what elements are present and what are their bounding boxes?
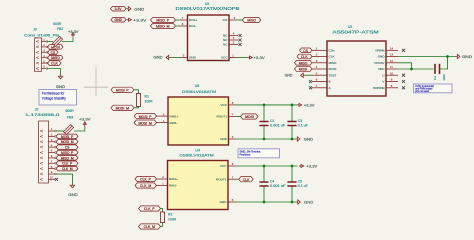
J3 net label MISO [48, 55, 64, 60]
svg-text:MOSI_M: MOSI_M [116, 106, 130, 110]
net label CLK_P at R2 [139, 206, 161, 211]
svg-text:ROUT1: ROUT1 [217, 115, 228, 119]
svg-text:1-1734595-0: 1-1734595-0 [25, 113, 59, 117]
U4 pin 2 RIN1+ [157, 178, 168, 180]
svg-text:0.1 uF: 0.1 uF [298, 184, 308, 188]
svg-text:TEST: TEST [329, 73, 337, 77]
capacitor C4 [263, 166, 265, 182]
net label CLK_M at R2 [139, 224, 161, 229]
ground left of U2 [166, 55, 170, 59]
svg-text:100R: 100R [145, 99, 154, 103]
svg-text:GND: GND [378, 55, 386, 59]
junction C3 top [291, 104, 294, 107]
power +3.3V at FB2 [72, 32, 75, 37]
net label MOSI_P at U5 [134, 114, 157, 119]
svg-text:W/PWM: W/PWM [373, 86, 385, 90]
svg-text:NC: NC [223, 34, 228, 38]
svg-text:C2: C2 [270, 119, 274, 123]
U3 pin 9 no-connect [402, 80, 405, 83]
J2 pin 2 [49, 135, 55, 137]
junction VDD [410, 68, 413, 71]
U3 pin 4 MOSI [312, 68, 327, 70]
svg-text:GND: GND [56, 85, 66, 89]
svg-text:10: 10 [50, 176, 54, 180]
svg-text:14: 14 [390, 47, 394, 51]
junction GND/C1 [446, 55, 449, 58]
J2 pin 5 [49, 152, 55, 154]
net label CLK_M at U4 [135, 183, 157, 188]
svg-text:CS: CS [51, 51, 56, 55]
svg-text:DO1+: DO1+ [189, 18, 197, 22]
wire U2 GND [171, 57, 181, 59]
svg-text:RIN1+: RIN1+ [170, 114, 179, 118]
J2 pin 10 [49, 178, 55, 180]
wire U2 VCC to +3.3V [237, 57, 248, 59]
U3 pin 14 no-connect [402, 49, 405, 52]
J2 pin 10 no-connect [55, 178, 58, 181]
svg-text:CLK: CLK [243, 178, 250, 182]
net label MISO_M at U2 [151, 24, 176, 29]
net label MOSI at U5 output [237, 116, 241, 118]
junction C3 bottom [291, 138, 294, 141]
svg-text:U: U [382, 73, 384, 77]
svg-text:FB2: FB2 [57, 27, 63, 31]
U3 pin 12 VDD3V [386, 62, 398, 64]
svg-text:ROUT1: ROUT1 [216, 177, 227, 181]
U2 pin 5 GND [181, 57, 188, 59]
IC U2 body [188, 15, 230, 61]
capacitor C3 [291, 105, 293, 122]
svg-text:RIN1-: RIN1- [169, 184, 177, 188]
U2 NC pin 4 [229, 35, 238, 37]
svg-text:MOSI_P: MOSI_P [116, 88, 130, 92]
U3 pin 6 B no-connect [309, 80, 312, 83]
U2 NC pin 3 [229, 44, 238, 46]
svg-text:+3.3V: +3.3V [253, 56, 265, 60]
svg-text:CLK_M: CLK_M [140, 184, 151, 188]
U5 pin 7 ROUT1 [229, 116, 237, 118]
svg-text:CLK: CLK [329, 55, 336, 59]
power symbol GND (rotated right) [127, 7, 131, 11]
svg-text:U3: U3 [348, 25, 353, 29]
svg-text:DS90LV017ATMX/NOPB: DS90LV017ATMX/NOPB [176, 6, 240, 11]
svg-text:100n: 100n [442, 74, 446, 81]
J2 net label MISO_P [56, 150, 78, 155]
svg-text:CS: CS [65, 146, 69, 150]
U2 NC pin 5 [229, 39, 238, 41]
svg-text:I/PWM: I/PWM [375, 49, 385, 53]
wire VDD [398, 68, 434, 70]
svg-text:+3.3V: +3.3V [306, 164, 318, 168]
ground below J3 [58, 75, 62, 79]
wire CLK_P to R2 [161, 209, 163, 213]
svg-text:C1: C1 [433, 76, 437, 80]
svg-text:GND: GND [154, 55, 164, 59]
net label 3.3V [111, 6, 127, 11]
ground below J2 [70, 184, 74, 188]
svg-text:CLK_P: CLK_P [144, 207, 155, 211]
svg-text:11: 11 [390, 65, 393, 69]
svg-text:GND: GND [189, 56, 197, 60]
IC U4 body [168, 161, 229, 210]
U5 pin 1 RIN1- [157, 122, 168, 124]
net label MISO at U3 [295, 61, 313, 66]
J2 net label MOSI_M [56, 140, 78, 145]
U2 pin 1 VCC [229, 57, 237, 59]
resistor R2 [160, 212, 164, 223]
net label MOSI at U3 [295, 67, 313, 72]
J3 pin 1 [42, 41, 47, 43]
U4 pin 1 RIN1- [157, 185, 168, 187]
J2 net label MOSI_P [56, 134, 78, 139]
connector J2 body [39, 121, 49, 183]
svg-text:GND: GND [68, 193, 78, 197]
capacitor C2 [263, 105, 265, 122]
power symbol +3.3V (rotated right) [127, 18, 132, 21]
U3 pin 3 MISO [312, 62, 327, 64]
svg-text:CLK_P: CLK_P [140, 178, 151, 182]
svg-text:0.1 uF: 0.1 uF [298, 123, 308, 127]
svg-text:12: 12 [390, 59, 394, 63]
wire U5 VCC net [237, 104, 298, 106]
ground right of U3 [456, 54, 460, 58]
U3 pin 8 W/PWM [386, 87, 398, 89]
svg-text:+3.3V: +3.3V [133, 18, 147, 22]
wire J2 pin1 to FB3 [56, 130, 64, 132]
junction C5 top [291, 165, 294, 168]
svg-text:GND: GND [304, 137, 314, 141]
net label CS at U3 [300, 48, 313, 53]
svg-text:J3: J3 [33, 28, 37, 32]
U5 pin 2 RIN1+ [157, 115, 168, 117]
svg-text:VCC: VCC [220, 164, 227, 168]
U3 pin 6 B [312, 81, 327, 83]
svg-text:DS90LV018ATM: DS90LV018ATM [179, 153, 213, 158]
svg-text:CLK_P: CLK_P [62, 162, 72, 166]
svg-text:NC: NC [223, 38, 228, 42]
U3 pin 11 VDD [386, 68, 398, 70]
U3 pin 5 TEST [312, 74, 327, 76]
svg-text:R1: R1 [145, 94, 149, 98]
svg-text:Voltage Stability: Voltage Stability [42, 96, 66, 100]
wire U3 GND net [398, 56, 456, 58]
svg-text:+3.3V: +3.3V [68, 30, 79, 34]
svg-text:DI1: DI1 [223, 18, 228, 22]
J2 net label CS [56, 145, 78, 150]
wire C1 to GND net [440, 57, 448, 70]
wire VDD3V [398, 63, 412, 69]
J3 pin 5 [42, 62, 47, 64]
svg-text:GND: GND [462, 55, 473, 59]
U3 pin 2 CLK [312, 56, 327, 58]
svg-text:600R: 600R [65, 109, 74, 113]
J2 pin 1 [49, 130, 55, 132]
net label CLK at U3 [297, 54, 312, 59]
svg-text:MISO_M: MISO_M [61, 156, 74, 160]
svg-text:FerriteBead for: FerriteBead for [42, 92, 65, 96]
svg-text:MOSI_M: MOSI_M [61, 140, 74, 144]
svg-text:+3.3V: +3.3V [79, 118, 91, 122]
svg-text:+3.3V: +3.3V [304, 103, 315, 107]
note box FerriteBead for Voltage Stability [39, 90, 77, 106]
wire U4 GND net [237, 201, 297, 203]
wire MOSI_M to R1 [134, 107, 139, 108]
U3 pin 14 I/PWM [386, 49, 398, 51]
U2 pin 2 DI1 [229, 19, 237, 21]
note box termination resistors [238, 149, 280, 158]
J3 net label CLK [48, 61, 62, 66]
svg-text:GND: GND [115, 18, 123, 22]
svg-text:MOSI: MOSI [299, 67, 308, 71]
svg-text:CLK: CLK [301, 55, 308, 59]
J3 pin 6 [42, 68, 47, 70]
IC U3 body [327, 41, 386, 96]
U2 pin 7 DO1+ [181, 19, 188, 21]
net label MOSI_P at R1 [111, 87, 134, 92]
net label MISO_P at U2 [151, 18, 176, 23]
svg-text:10: 10 [390, 71, 394, 75]
wire J3 pin1 to FB2 [47, 41, 53, 43]
power +3.3V right of U5 [297, 103, 302, 106]
svg-text:C4: C4 [270, 179, 274, 183]
svg-text:RIN1+: RIN1+ [169, 177, 178, 181]
svg-text:VCC: VCC [221, 56, 228, 60]
svg-text:C5: C5 [298, 179, 302, 183]
svg-text:CS: CS [303, 49, 308, 53]
svg-text:MISO_P: MISO_P [156, 19, 170, 23]
J3 pin 4 [42, 57, 47, 59]
J2 net label MISO_M [56, 156, 78, 161]
J3 net label MOSI [48, 45, 64, 50]
svg-text:0.001 uF: 0.001 uF [270, 184, 285, 188]
svg-text:MOSI_P: MOSI_P [139, 115, 153, 119]
ground right of U4 [296, 200, 300, 204]
svg-text:MISO: MISO [51, 56, 60, 60]
junction C2 bottom [263, 138, 266, 141]
svg-text:GND: GND [304, 200, 314, 204]
svg-text:C3: C3 [298, 119, 302, 123]
power +3.3V at FB3 [83, 122, 86, 127]
svg-text:AS5047P-ATSM: AS5047P-ATSM [332, 29, 379, 34]
svg-text:MOSI_P: MOSI_P [61, 135, 73, 139]
svg-text:CLK_M: CLK_M [144, 225, 155, 229]
U4 pin 7 ROUT1 [228, 178, 237, 180]
svg-text:MISO: MISO [299, 61, 308, 65]
junction C4 bottom [263, 201, 266, 204]
wire FB3 to +3.3V [74, 127, 85, 131]
svg-text:CLK_M: CLK_M [62, 167, 73, 171]
svg-text:600R: 600R [53, 22, 62, 26]
wire J2 pin9 to GND [56, 174, 73, 183]
svg-text:GND: GND [220, 200, 228, 204]
U4 pin 8 VCC [228, 165, 237, 167]
svg-text:FB3: FB3 [67, 116, 73, 120]
U3 pin 10 no-connect [402, 74, 405, 77]
ground right of U5 [296, 137, 300, 141]
svg-text:MOSI: MOSI [245, 115, 254, 119]
J3 pin 2 [42, 46, 47, 48]
U3 pin 7 A [312, 87, 327, 89]
U3 pin 1 CSn [312, 49, 327, 51]
U3 pin 7 A no-connect [309, 86, 312, 89]
capacitor C5 [291, 166, 293, 182]
U3 pin 9 V [386, 81, 398, 83]
svg-text:Conn_01x06_Pin: Conn_01x06_Pin [24, 34, 59, 38]
svg-text:MISO_M: MISO_M [156, 25, 170, 29]
svg-text:RIN1-: RIN1- [170, 121, 178, 125]
wire CLK_M to R2 [161, 223, 163, 227]
J3 pin 3 [42, 51, 47, 53]
svg-text:J2: J2 [35, 108, 39, 112]
J2 pin 6 [49, 157, 55, 159]
svg-text:MISO: MISO [247, 19, 256, 23]
wire J3 pin6 to GND [47, 69, 60, 75]
svg-text:CLK: CLK [51, 62, 58, 66]
svg-text:CSn: CSn [329, 49, 335, 53]
resistor R1 [136, 94, 140, 107]
svg-text:U5: U5 [195, 84, 200, 88]
U5 pin 5 GND [229, 138, 237, 140]
svg-text:VCC: VCC [220, 103, 227, 107]
capacitor C1 (horizontal) [434, 64, 436, 74]
svg-text:Resistors: Resistors [240, 153, 252, 157]
wire FB2 to +3.3V [62, 37, 73, 41]
J2 pin 9 [49, 173, 55, 175]
U3 pin 13 GND [386, 56, 398, 58]
svg-text:NC: NC [223, 43, 228, 47]
net label MOSI_M at U5 [134, 120, 157, 125]
svg-text:VDD: VDD [378, 67, 385, 71]
svg-text:0.001 uF: 0.001 uF [270, 123, 285, 127]
svg-text:100R: 100R [168, 218, 177, 222]
wire MOSI_P to R1 [134, 90, 139, 94]
connector J3 body [35, 38, 42, 71]
wire U4 VCC net [237, 165, 298, 167]
crosshair marker [84, 68, 108, 97]
svg-text:GND: GND [220, 137, 228, 141]
net label MOSI_M at R1 [111, 105, 134, 110]
junction C5 bottom [291, 201, 294, 204]
ground at U3 TEST pin [301, 73, 305, 77]
svg-text:B: B [329, 80, 331, 84]
svg-text:VDD3V: VDD3V [374, 61, 385, 65]
svg-text:GND: GND [285, 73, 293, 77]
net label CLK_P at U4 [135, 176, 157, 181]
svg-text:GND: GND [134, 7, 144, 11]
power +3.3V right of U2 [248, 56, 253, 59]
ferrite bead FB3 [63, 125, 73, 135]
J2 net label CLK_M [56, 166, 78, 171]
J2 pin 4 [49, 146, 55, 148]
J3 net label CS [48, 50, 59, 55]
svg-text:MISO: MISO [329, 61, 338, 65]
U3 pin 10 U [386, 74, 398, 76]
svg-text:pins not used: pins not used [415, 90, 429, 93]
net label MISO at U2 output [242, 17, 260, 22]
svg-text:MOSI_M: MOSI_M [138, 121, 152, 125]
svg-text:MISO_P: MISO_P [61, 151, 73, 155]
J2 pin 8 [49, 168, 55, 170]
svg-text:DO1-: DO1- [189, 24, 196, 28]
net label CLK at U4 output [237, 178, 239, 180]
U4 pin 5 GND [228, 201, 237, 203]
power +3.3V right of U4 [299, 165, 304, 168]
wire U5 GND net [237, 138, 296, 140]
IC U5 body [168, 97, 229, 145]
svg-text:R2: R2 [168, 213, 172, 217]
J2 pin 7 [49, 162, 55, 164]
net label GND (tie row 2) [111, 17, 126, 22]
note box at U3 outputs [414, 84, 453, 93]
J2 pin 3 [49, 141, 55, 143]
junction C4 top [263, 165, 266, 168]
U5 pin 8 VCC [229, 104, 237, 106]
ferrite bead FB2 [52, 36, 62, 46]
svg-text:3.3V: 3.3V [115, 7, 123, 11]
svg-text:13: 13 [390, 53, 394, 57]
U3 pin 8 no-connect [402, 86, 405, 89]
junction C2 top [263, 104, 266, 107]
svg-text:DS90LV018ATM: DS90LV018ATM [182, 89, 216, 94]
U2 pin 8 DO1- [181, 25, 188, 27]
J2 net label CLK_P [56, 161, 78, 166]
svg-text:MOSI: MOSI [329, 67, 337, 71]
